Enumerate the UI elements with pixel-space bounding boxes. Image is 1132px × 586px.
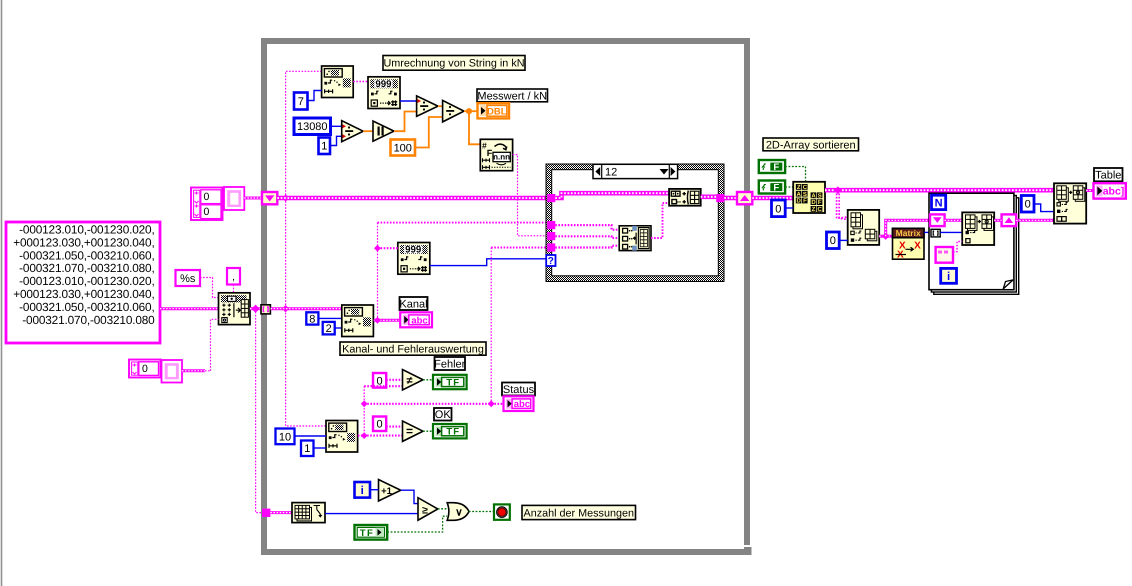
- constant 0 sort: [772, 200, 786, 217]
- scan from string icon 2: [398, 243, 430, 275]
- Fehler boolean indicator: [433, 375, 467, 389]
- wire TF to or: [387, 516, 447, 532]
- wire or to stop terminal: [469, 511, 494, 513]
- svg-text:C: C: [803, 184, 808, 191]
- svg-text:n.nn: n.nn: [493, 153, 510, 162]
- increment function: [379, 480, 401, 502]
- svg-text:TF: TF: [446, 378, 460, 389]
- wire 0 to equal: [386, 426, 402, 428]
- svg-text:0: 0: [1025, 199, 1031, 211]
- svg-text:Z: Z: [812, 206, 816, 213]
- junction before tunnel: [251, 305, 259, 313]
- wire divide to absolute: [363, 130, 373, 132]
- divide function 2: [417, 96, 438, 117]
- wire empty string to build: [953, 242, 962, 252]
- svg-text:C: C: [818, 206, 823, 213]
- svg-text:TF: TF: [360, 528, 375, 539]
- svg-text:N: N: [935, 198, 943, 210]
- for loop array tunnel: [931, 229, 940, 237]
- window left edge line: [1, 0, 3, 586]
- svg-text:DBL: DBL: [487, 106, 507, 117]
- svg-text:-000321.050,-003210.060,: -000321.050,-003210.060,: [19, 300, 154, 314]
- svg-text:S: S: [818, 192, 822, 199]
- wire 13080 to divide: [331, 125, 342, 127]
- absolute value function: [373, 121, 394, 141]
- divide function 3: [443, 100, 464, 122]
- svg-text:Z: Z: [797, 184, 801, 191]
- Status string indicator: [504, 396, 534, 411]
- wire false2 to sort icon: [785, 186, 793, 188]
- orange junction: [466, 108, 472, 114]
- wire right shift register to sort icon: [752, 196, 793, 201]
- DBL indicator: [478, 103, 510, 118]
- array to cluster icon: [669, 189, 701, 206]
- for loop output tunnel: [1002, 214, 1017, 226]
- label Status: [502, 383, 535, 396]
- wire 0 to index array: [839, 239, 848, 241]
- wire sort output to insert icon: [825, 188, 1054, 193]
- case wire cluster icon to out tunnel: [701, 195, 717, 200]
- svg-text:12: 12: [605, 166, 617, 178]
- cluster constant top 0 0 array: [191, 188, 223, 221]
- svg-text:OK: OK: [435, 409, 452, 421]
- wire 10 to subset2: [295, 435, 327, 437]
- svg-text:-000321.070,-003210.080,: -000321.070,-003210.080,: [19, 261, 154, 275]
- svg-text:F: F: [487, 148, 493, 158]
- svg-text:Matrix: Matrix: [896, 228, 921, 238]
- wire format icon to case tunnel3: [513, 155, 547, 236]
- constant 0 ok: [373, 417, 386, 432]
- svg-text:F: F: [773, 183, 779, 194]
- svg-text:i: i: [947, 271, 950, 283]
- svg-text:A: A: [811, 192, 816, 199]
- wire subset2 output: [358, 435, 403, 437]
- svg-text:0: 0: [775, 203, 781, 215]
- svg-text:S: S: [803, 191, 807, 198]
- svg-text:≥: ≥: [422, 504, 428, 516]
- format into string icon: [480, 139, 512, 170]
- false constant 1: [759, 160, 785, 173]
- index array icon right: [848, 210, 880, 245]
- wire for loop out to insert icon: [1016, 219, 1054, 222]
- case wires tunnels to index icon: [555, 225, 619, 230]
- svg-text:7: 7: [298, 96, 304, 108]
- constant 100: [391, 140, 416, 156]
- case wire tunnel1 to cluster icon: [555, 193, 669, 198]
- label Kanal: [400, 297, 428, 310]
- iteration terminal i loop: [941, 268, 957, 283]
- wire 0 to sort: [785, 207, 793, 209]
- svg-text:-000321.070,-003210.080: -000321.070,-003210.080: [22, 313, 155, 327]
- insert into array icon: [1054, 183, 1086, 223]
- constant 2: [323, 322, 335, 335]
- wire cluster to left shift register: [244, 197, 262, 200]
- svg-text:F: F: [818, 199, 822, 206]
- constant 7: [294, 93, 308, 110]
- svg-text:100: 100: [394, 142, 412, 154]
- svg-text:+000123.030,+001230.040,: +000123.030,+001230.040,: [13, 235, 154, 249]
- string constant data: [6, 222, 160, 343]
- svg-text:0: 0: [204, 191, 210, 203]
- svg-text:+000123.030,+001230.040,: +000123.030,+001230.040,: [13, 287, 154, 301]
- wire string to scan2 and case tunnel2: [378, 222, 548, 224]
- svg-text:abc: abc: [411, 315, 427, 326]
- wire icon output to loop tunnel: [250, 307, 262, 310]
- wire subset to scan icon: [353, 81, 368, 83]
- or function: [447, 503, 469, 521]
- constant 0 fehler: [373, 373, 386, 388]
- wire notequal to Fehler: [423, 379, 433, 381]
- constant 1b: [301, 441, 314, 457]
- equal function: [403, 421, 424, 441]
- wire %s to icon: [200, 278, 219, 298]
- wire index array output: [879, 235, 892, 238]
- svg-text:F: F: [773, 162, 779, 173]
- constant 0 index: [827, 232, 840, 249]
- wire build icon to out tunnel: [994, 219, 1001, 222]
- case tunnel 2: [547, 221, 555, 229]
- wire false1 to sort icon: [785, 167, 805, 182]
- wire subset to kanal indicator: [374, 319, 401, 322]
- wire status string to case tunnel4: [491, 247, 547, 249]
- svg-text:1: 1: [304, 443, 310, 455]
- case tunnel 4: [547, 243, 555, 251]
- scan from string icon: [368, 77, 400, 109]
- svg-text:0: 0: [830, 235, 836, 247]
- wire 7 to icon: [308, 91, 322, 101]
- label OK: [434, 408, 452, 421]
- svg-text:Anzahl der Messungen: Anzahl der Messungen: [524, 507, 634, 519]
- case selector label: [593, 164, 678, 178]
- constant 0 far right: [1021, 196, 1034, 213]
- constant 1: [319, 138, 331, 155]
- svg-text:999: 999: [375, 79, 392, 90]
- case structure border: [546, 164, 724, 282]
- svg-text:-000321.050,-003210.060,: -000321.050,-003210.060,: [19, 248, 154, 262]
- svg-text:Messwert / kN: Messwert / kN: [477, 90, 547, 102]
- svg-text:X: X: [914, 240, 921, 251]
- delimiter constant comma: [227, 268, 240, 285]
- svg-text:10: 10: [279, 431, 291, 443]
- svg-text:0: 0: [204, 206, 210, 218]
- svg-text:TF: TF: [446, 427, 460, 438]
- bottom loop tunnel: [262, 509, 270, 517]
- OK boolean indicator: [433, 424, 467, 438]
- wire 0 to not-equal: [386, 379, 402, 381]
- wire shift register string up to icons: [286, 71, 322, 198]
- loop array tunnel left: [261, 305, 270, 314]
- wire divide3 to DBL and down: [464, 110, 478, 112]
- svg-text:D: D: [811, 199, 816, 206]
- index bundle cluster array icon: [619, 226, 651, 251]
- svg-text:Status: Status: [503, 384, 535, 396]
- label Fehler: [435, 357, 466, 370]
- case tunnel 1: [547, 194, 555, 202]
- svg-text:999: 999: [405, 245, 422, 256]
- wire ge to or: [438, 508, 447, 510]
- TF false constant: [355, 525, 388, 540]
- wire string constant to spreadsheet icon: [160, 307, 219, 310]
- wire 1 to subset2: [314, 447, 327, 449]
- wire tunnel to string subset kanal: [271, 307, 342, 310]
- wire scan2 output to case ? terminal: [430, 259, 546, 266]
- svg-text:abc]: abc]: [1103, 186, 1125, 198]
- wire array size to greater-equal: [325, 513, 418, 515]
- case wire index icon to cluster icon: [651, 203, 669, 238]
- right shift register: [737, 192, 752, 204]
- string subset icon 2: [326, 421, 358, 453]
- svg-text:2D-Array sortieren: 2D-Array sortieren: [766, 139, 856, 151]
- cluster shell bottom: [162, 360, 183, 383]
- wire comma to icon: [233, 285, 235, 294]
- empty string constant: [936, 247, 953, 263]
- wire 8 to subset: [318, 317, 341, 319]
- wire 1 to divide: [330, 136, 342, 145]
- svg-text:Umrechnung von String in kN: Umrechnung von String in kN: [383, 58, 524, 70]
- svg-text:13080: 13080: [297, 121, 328, 133]
- greater or equal function: [418, 498, 438, 521]
- while loop border: [261, 38, 752, 555]
- wire scan to divide: [400, 100, 417, 102]
- wire for tunnel to build icon string: [945, 219, 963, 222]
- label Umrechnung von String in kN: [383, 56, 525, 71]
- svg-text:0: 0: [377, 419, 383, 431]
- wire equal to OK: [423, 430, 433, 432]
- svg-text:%s: %s: [180, 273, 196, 285]
- svg-text:abc: abc: [514, 399, 530, 410]
- label Table: [1094, 168, 1123, 181]
- wire 0 to insert icon: [1034, 204, 1054, 212]
- not equal function: [403, 370, 424, 391]
- label Anzahl der Messungen: [522, 505, 636, 519]
- wire absolute to divide2: [394, 112, 417, 132]
- wire subset2 to not-equal bottom: [364, 385, 402, 387]
- svg-text:≠: ≠: [406, 375, 412, 387]
- svg-text:A: A: [797, 191, 802, 198]
- string subset icon top: [322, 66, 354, 98]
- for loop input tunnel: [930, 214, 945, 226]
- matrix transpose icon: [893, 228, 925, 261]
- left shift register: [262, 192, 277, 204]
- svg-text:Kanal- und Fehlerauswertung: Kanal- und Fehlerauswertung: [342, 343, 484, 355]
- constant 13080: [294, 118, 331, 135]
- wire status line: [364, 403, 503, 405]
- wire down to bottom tunnel: [256, 309, 262, 513]
- string subset icon kanal: [342, 305, 374, 337]
- svg-text:0: 0: [142, 363, 148, 375]
- cluster shell top: [224, 187, 244, 210]
- case out tunnel: [716, 194, 724, 202]
- svg-text:8: 8: [309, 313, 315, 325]
- wire i to +1: [370, 489, 379, 491]
- divide function 1: [342, 121, 364, 142]
- svg-text:-000123.010,-001230.020,: -000123.010,-001230.020,: [19, 222, 154, 236]
- stop button terminal: [494, 504, 510, 519]
- svg-text:D: D: [797, 198, 802, 205]
- wire tunnel to build icon: [940, 231, 962, 233]
- label Messwert / kN: [477, 89, 548, 102]
- svg-text:Table: Table: [1095, 170, 1121, 182]
- wire sort output down to index array: [837, 190, 848, 218]
- wire matrix to for loop: [924, 231, 932, 233]
- constant 8: [306, 312, 318, 324]
- svg-text:-000123.010,-001230.020,: -000123.010,-001230.020,: [19, 274, 154, 288]
- svg-text:∨: ∨: [455, 507, 463, 519]
- svg-text:+1: +1: [381, 486, 393, 497]
- for loop count terminal N: [932, 195, 946, 209]
- svg-text:=: =: [406, 424, 413, 438]
- wire divide2 to divide3: [438, 105, 443, 107]
- build array icon in loop: [962, 212, 994, 245]
- main string wire from shift register to case: [277, 196, 547, 201]
- wire 100 to divide3: [415, 117, 443, 148]
- wire +1 to greater-equal: [401, 490, 418, 503]
- svg-text:i: i: [361, 485, 364, 497]
- for loop frame: [929, 193, 1019, 294]
- wire insert icon to Table: [1086, 189, 1093, 192]
- wire tunnel to array size icon: [270, 511, 292, 514]
- case tunnel 3: [547, 232, 555, 240]
- array size icon: [292, 503, 325, 523]
- svg-text:Kanal: Kanal: [399, 298, 427, 310]
- Table string indicator: [1094, 183, 1126, 198]
- cluster constant bottom 0: [129, 360, 161, 378]
- svg-text:1: 1: [321, 141, 327, 153]
- wire 2 to subset: [335, 327, 342, 329]
- svg-text:?: ?: [548, 256, 554, 267]
- case selector terminal: [546, 255, 555, 267]
- label 2D-Array sortieren: [763, 138, 859, 151]
- svg-text:,: ,: [232, 271, 235, 283]
- wire bottom cluster up to icon: [182, 369, 205, 372]
- spreadsheet string to array icon: [219, 293, 251, 325]
- wire up to for loop tunnel: [886, 220, 930, 236]
- label Kanal- und Fehlerauswertung: [340, 342, 486, 355]
- svg-text:F: F: [803, 198, 807, 205]
- Kanal string indicator: [400, 312, 432, 327]
- svg-text:Fehler: Fehler: [434, 358, 466, 370]
- wire case to right shift register: [724, 196, 737, 201]
- format string constant %s: [176, 270, 201, 286]
- constant 10: [276, 429, 295, 445]
- false constant 2: [759, 181, 785, 194]
- svg-text:2: 2: [326, 323, 332, 335]
- iteration terminal i: [355, 482, 371, 498]
- sort 2D array icon: [793, 182, 825, 213]
